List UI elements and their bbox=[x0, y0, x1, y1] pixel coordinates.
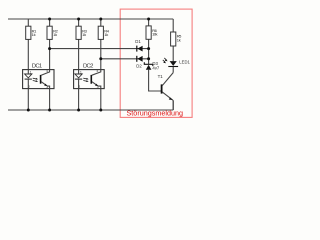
wire R1 column bbox=[27, 19, 29, 110]
DC2 internal LED bbox=[75, 74, 82, 78]
junction dots bottom rail bbox=[27, 109, 30, 112]
wire R2 column bbox=[49, 19, 51, 110]
svg-text:3: 3 bbox=[97, 85, 99, 89]
svg-text:DC2: DC2 bbox=[83, 63, 93, 69]
svg-text:10k: 10k bbox=[152, 32, 157, 37]
wire R4 column bbox=[100, 19, 102, 110]
wire node A (DC1 collector to D1) bbox=[50, 48, 149, 50]
resistor R2 bbox=[47, 26, 52, 39]
svg-text:4: 4 bbox=[96, 69, 98, 73]
wire right column (rail corner to R5, R5 to LED1, LED1 to T1, emitter to rail) bbox=[172, 19, 174, 110]
svg-text:DC1: DC1 bbox=[32, 63, 42, 69]
optocoupler DC2 box bbox=[74, 70, 105, 89]
svg-text:1k: 1k bbox=[53, 32, 57, 37]
svg-text:LED1: LED1 bbox=[179, 59, 190, 64]
wire top supply rail bbox=[8, 18, 173, 20]
svg-text:Störungsmeldung: Störungsmeldung bbox=[127, 109, 184, 118]
LED1 arrows bbox=[163, 58, 167, 62]
svg-text:1: 1 bbox=[30, 70, 32, 74]
wire bottom ground rail bbox=[8, 109, 173, 111]
svg-text:4: 4 bbox=[46, 69, 48, 73]
DC2 phototransistor bbox=[90, 75, 92, 84]
svg-text:4v7: 4v7 bbox=[152, 65, 160, 70]
resistor R1 bbox=[26, 26, 31, 39]
DC1 light arrows bbox=[33, 78, 37, 81]
svg-text:T1: T1 bbox=[158, 74, 164, 79]
zener diode D3 bbox=[144, 62, 153, 66]
svg-text:1k: 1k bbox=[177, 37, 181, 42]
DC2 light arrows bbox=[83, 78, 87, 81]
DC1 internal LED bbox=[25, 74, 32, 78]
wire node B (DC2 collector to D2) bbox=[101, 58, 149, 60]
optocoupler DC1 box bbox=[23, 70, 54, 89]
junction dots top rail bbox=[48, 18, 51, 21]
diode D1 bbox=[136, 46, 138, 52]
wire R6 column and base feed bbox=[149, 19, 162, 91]
resistor R6 bbox=[146, 26, 151, 39]
junction dots node B bbox=[99, 57, 102, 60]
red annotation region box bbox=[120, 9, 192, 117]
svg-text:1k: 1k bbox=[82, 32, 86, 37]
transistor T1 bbox=[161, 84, 163, 93]
DC1 phototransistor bbox=[40, 75, 42, 84]
resistor R5 bbox=[171, 32, 176, 46]
resistor R4 bbox=[98, 26, 103, 39]
svg-text:1k: 1k bbox=[32, 32, 36, 37]
resistor R3 bbox=[76, 26, 81, 39]
svg-text:1: 1 bbox=[80, 70, 82, 74]
svg-text:3: 3 bbox=[46, 85, 48, 89]
diode D2 bbox=[136, 56, 138, 62]
wire R3 column bbox=[78, 19, 80, 110]
svg-text:D1: D1 bbox=[135, 39, 141, 44]
svg-text:1k: 1k bbox=[104, 32, 108, 37]
LED LED1 bbox=[170, 61, 177, 66]
svg-text:D2: D2 bbox=[136, 63, 142, 68]
svg-text:2: 2 bbox=[78, 85, 80, 89]
junction dots node A bbox=[48, 47, 51, 50]
svg-text:2: 2 bbox=[28, 85, 30, 89]
